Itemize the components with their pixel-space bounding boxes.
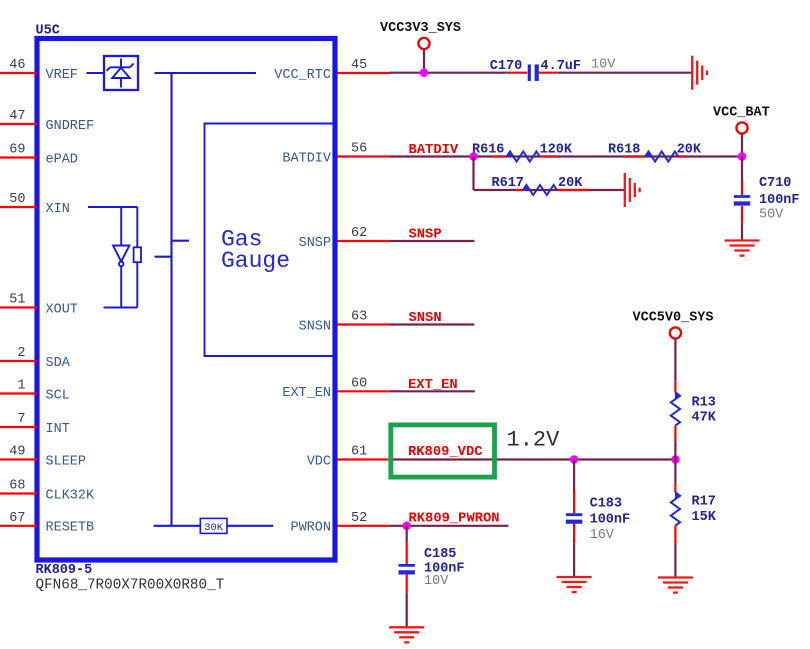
svg-text:47K: 47K bbox=[692, 411, 717, 426]
resistor R616 zigzag bbox=[507, 152, 514, 157]
svg-text:100nF: 100nF bbox=[759, 193, 800, 208]
svg-text:51: 51 bbox=[9, 293, 25, 308]
wire R17 to ground bbox=[674, 543, 676, 577]
capacitor C170 right lead bbox=[539, 72, 558, 74]
power symbol VCC5V0_SYS bbox=[670, 327, 681, 338]
feedback resistor R (oscillator) bbox=[134, 207, 141, 308]
svg-text:7: 7 bbox=[17, 412, 25, 427]
ground below C183 bbox=[557, 576, 592, 578]
junction R13/R17 tap bbox=[671, 455, 680, 464]
svg-text:63: 63 bbox=[351, 310, 367, 325]
wire VCC5V0_SYS down to R13 bbox=[674, 339, 676, 382]
svg-text:30K: 30K bbox=[204, 522, 224, 534]
wire net VCC_RTC horizontal bbox=[390, 72, 507, 74]
svg-text:SCL: SCL bbox=[46, 388, 70, 403]
svg-text:68: 68 bbox=[9, 479, 25, 494]
svg-text:20K: 20K bbox=[558, 176, 583, 191]
resistor R17 zigzag bbox=[675, 493, 680, 500]
svg-text:VCC5V0_SYS: VCC5V0_SYS bbox=[633, 311, 714, 326]
resistor R616 leads bbox=[491, 155, 507, 157]
pin 52 PWRON wire stub bbox=[338, 525, 390, 527]
svg-text:PWRON: PWRON bbox=[290, 521, 331, 536]
capacitor C183 top lead bbox=[573, 490, 575, 513]
pin 56 BATDIV wire stub bbox=[338, 155, 390, 157]
junction C185 tap bbox=[402, 522, 411, 531]
wire XOUT rail bbox=[104, 307, 138, 309]
resistor R618 leads bbox=[625, 155, 645, 157]
wire C710 to ground bbox=[741, 223, 743, 240]
svg-text:CLK32K: CLK32K bbox=[46, 488, 96, 503]
svg-text:100nF: 100nF bbox=[590, 513, 631, 528]
svg-text:R13: R13 bbox=[692, 396, 716, 411]
svg-text:XIN: XIN bbox=[46, 202, 70, 217]
internal tick right y=240.7 bbox=[172, 240, 190, 242]
resistor R617 zigzag bbox=[523, 185, 530, 190]
svg-text:50V: 50V bbox=[759, 208, 784, 223]
svg-text:SNSP: SNSP bbox=[299, 236, 331, 251]
svg-text:1: 1 bbox=[17, 379, 25, 394]
svg-text:67: 67 bbox=[9, 511, 25, 526]
svg-text:GNDREF: GNDREF bbox=[46, 119, 95, 134]
resistor R13 leads bbox=[674, 382, 676, 393]
svg-text:C183: C183 bbox=[590, 496, 622, 511]
svg-text:52: 52 bbox=[351, 511, 367, 526]
svg-text:U5C: U5C bbox=[36, 24, 60, 39]
wire C183 to ground bbox=[573, 543, 575, 576]
pin 69 ePAD wire stub bbox=[0, 156, 37, 158]
highlight box (green) around RK809_VDC bbox=[391, 425, 495, 477]
svg-text:20K: 20K bbox=[677, 142, 702, 157]
svg-text:C710: C710 bbox=[759, 176, 791, 191]
internal vertical wire x=171.5 bbox=[170, 73, 172, 526]
ground (right-facing) after R617 bbox=[624, 173, 626, 207]
wire net SNSP bbox=[390, 240, 475, 242]
svg-text:SNSP: SNSP bbox=[409, 228, 442, 243]
ground below R17 bbox=[658, 576, 693, 578]
junction BATDIV / R616 / R617 bbox=[469, 152, 478, 161]
pin 63 SNSN wire stub bbox=[338, 323, 390, 325]
svg-text:VCC3V3_SYS: VCC3V3_SYS bbox=[380, 21, 461, 36]
zener diode symbol bbox=[107, 59, 134, 88]
svg-text:16V: 16V bbox=[590, 528, 615, 543]
svg-text:ePAD: ePAD bbox=[46, 152, 78, 167]
pin 49 SLEEP wire stub bbox=[0, 458, 37, 460]
internal wire: top rail y=73 bbox=[155, 72, 257, 74]
capacitor C170 left lead bbox=[507, 72, 528, 74]
capacitor C183 plates bbox=[566, 513, 582, 516]
svg-text:SLEEP: SLEEP bbox=[46, 454, 87, 469]
resistor 30K box bbox=[200, 518, 227, 533]
svg-text:50: 50 bbox=[9, 192, 25, 207]
pin 60 EXT_EN wire stub bbox=[338, 390, 389, 392]
pin 46 VREF wire stub bbox=[0, 72, 37, 74]
pin 45 VCC_RTC wire stub bbox=[338, 72, 390, 74]
pin 7 INT wire stub bbox=[0, 426, 37, 428]
svg-text:INT: INT bbox=[46, 422, 70, 437]
junction VCC_BAT column bbox=[738, 152, 747, 161]
pin 50 XIN wire stub bbox=[0, 206, 37, 208]
wire VCC_BAT to C710 bbox=[741, 157, 743, 182]
capacitor C710 plates bbox=[734, 195, 750, 198]
power symbol VCC_BAT bbox=[736, 122, 747, 133]
wire 30K to PWRON bbox=[227, 525, 273, 527]
svg-text:45: 45 bbox=[351, 58, 367, 73]
svg-text:RK809_VDC: RK809_VDC bbox=[408, 445, 483, 460]
resistor R617 leads bbox=[516, 189, 524, 191]
capacitor C710 top lead bbox=[741, 181, 743, 195]
wire net BATDIV horizontal bbox=[390, 155, 742, 157]
pin 67 RESETB wire stub bbox=[0, 525, 37, 527]
wire VREF to zener box bbox=[87, 72, 105, 74]
svg-text:R616: R616 bbox=[472, 142, 504, 157]
svg-text:10V: 10V bbox=[591, 58, 616, 73]
capacitor C710 bottom lead bbox=[741, 206, 743, 223]
resistor R618 zigzag bbox=[645, 152, 652, 157]
svg-text:62: 62 bbox=[351, 226, 367, 241]
wire net SNSN bbox=[390, 323, 475, 325]
svg-text:SNSN: SNSN bbox=[299, 319, 331, 334]
svg-text:R617: R617 bbox=[492, 176, 524, 191]
svg-text:SNSN: SNSN bbox=[409, 311, 442, 326]
svg-text:RESETB: RESETB bbox=[46, 521, 95, 536]
ground below C710 bbox=[725, 239, 760, 241]
ground (right-facing) after C170 bbox=[691, 56, 693, 90]
svg-text:BATDIV: BATDIV bbox=[409, 143, 459, 158]
wire junction to C183 bbox=[573, 460, 575, 491]
pin 68 CLK32K wire stub bbox=[0, 492, 37, 494]
wire junction to R17 bbox=[674, 460, 676, 484]
svg-text:RK809_PWRON: RK809_PWRON bbox=[409, 511, 500, 526]
svg-text:C170: C170 bbox=[490, 59, 522, 74]
svg-text:QFN68_7R00X7R00X0R80_T: QFN68_7R00X7R00X0R80_T bbox=[36, 578, 225, 594]
zener diode D (VREF clamp) box bbox=[104, 56, 138, 90]
svg-text:BATDIV: BATDIV bbox=[282, 151, 332, 166]
pin 51 XOUT wire stub bbox=[0, 306, 37, 308]
svg-text:120K: 120K bbox=[540, 142, 573, 157]
svg-text:15K: 15K bbox=[692, 510, 717, 525]
svg-text:56: 56 bbox=[351, 142, 367, 157]
svg-text:VDC: VDC bbox=[307, 454, 331, 469]
svg-text:1.2V: 1.2V bbox=[507, 427, 561, 452]
capacitor C170 plates bbox=[528, 64, 531, 81]
pin 61 VDC wire stub bbox=[338, 458, 390, 460]
svg-text:49: 49 bbox=[9, 445, 25, 460]
svg-text:R17: R17 bbox=[692, 494, 716, 509]
power symbol VCC3V3_SYS bbox=[418, 38, 429, 49]
resistor R17 leads bbox=[674, 484, 676, 493]
inverter U (oscillator amp) bbox=[113, 207, 129, 308]
capacitor C185 plates bbox=[399, 564, 415, 567]
svg-text:XOUT: XOUT bbox=[46, 302, 78, 317]
svg-text:10V: 10V bbox=[424, 574, 449, 589]
capacitor C183 bottom lead bbox=[573, 524, 575, 544]
Gas Gauge block outline bbox=[205, 124, 335, 357]
svg-text:VCC_BAT: VCC_BAT bbox=[713, 106, 770, 121]
pin 1 SCL wire stub bbox=[0, 392, 37, 394]
capacitor C185 bottom lead bbox=[406, 575, 408, 593]
wire R13 to junction bbox=[674, 441, 676, 460]
wire C185 to ground bbox=[406, 592, 408, 626]
IC U5C body outline bbox=[37, 39, 335, 561]
capacitor C185 top lead bbox=[406, 542, 408, 564]
junction at VCC3V3_SYS tap bbox=[420, 68, 429, 77]
svg-text:46: 46 bbox=[9, 58, 25, 73]
svg-text:SDA: SDA bbox=[46, 356, 71, 371]
svg-text:VREF: VREF bbox=[46, 68, 78, 83]
svg-text:60: 60 bbox=[351, 377, 367, 392]
svg-text:RK809-5: RK809-5 bbox=[36, 563, 93, 578]
svg-text:C185: C185 bbox=[424, 547, 456, 562]
svg-text:R618: R618 bbox=[608, 142, 640, 157]
svg-text:69: 69 bbox=[9, 143, 25, 158]
ground below C185 bbox=[389, 626, 424, 628]
wire XIN rail bbox=[88, 206, 137, 208]
pin 47 GNDREF wire stub bbox=[0, 123, 37, 125]
svg-text:2: 2 bbox=[17, 346, 25, 361]
svg-text:61: 61 bbox=[351, 445, 367, 460]
wire R617 row bbox=[474, 189, 591, 191]
wire net RK809_VDC bbox=[389, 458, 675, 460]
wire BATDIV junction down to R617 row bbox=[472, 157, 474, 191]
junction C183 tap bbox=[570, 455, 579, 464]
wire net RK809_PWRON bbox=[390, 525, 509, 527]
wire RESETB row to 30K bbox=[154, 525, 201, 527]
wire net EXT_EN bbox=[389, 390, 475, 392]
svg-text:EXT_EN: EXT_EN bbox=[282, 386, 331, 401]
internal stub left y=256.7 bbox=[155, 256, 172, 258]
svg-text:VCC_RTC: VCC_RTC bbox=[274, 68, 331, 83]
svg-text:47: 47 bbox=[9, 109, 25, 124]
wire C170 to ground bbox=[558, 72, 692, 74]
svg-text:Gauge: Gauge bbox=[221, 248, 290, 274]
pin 62 SNSP wire stub bbox=[338, 240, 390, 242]
wire junction to C185 bbox=[406, 526, 408, 542]
resistor R13 zigzag bbox=[675, 393, 680, 400]
pin 2 SDA wire stub bbox=[0, 360, 37, 362]
svg-text:EXT_EN: EXT_EN bbox=[408, 378, 458, 393]
